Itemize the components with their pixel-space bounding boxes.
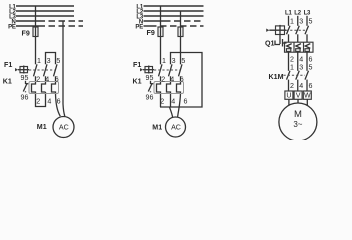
svg-text:1: 1 [290,17,294,25]
svg-text:6: 6 [184,97,188,105]
svg-text:AC: AC [59,123,69,131]
svg-text:2: 2 [290,56,294,64]
svg-text:95: 95 [146,74,154,82]
svg-text:AC: AC [171,123,181,131]
svg-text:5: 5 [309,17,313,25]
svg-text:U: U [286,92,291,100]
svg-text:6: 6 [309,56,313,64]
svg-text:3: 3 [172,57,176,65]
svg-text:1: 1 [290,64,294,72]
svg-text:2: 2 [36,97,40,105]
svg-text:M1: M1 [37,123,47,131]
svg-text:96: 96 [21,94,29,102]
svg-text:1: 1 [37,57,41,65]
svg-text:F1: F1 [4,61,12,69]
svg-text:Q1: Q1 [265,39,275,47]
svg-text:5: 5 [181,57,185,65]
svg-text:K1: K1 [3,77,12,85]
svg-text:95: 95 [21,74,29,82]
svg-text:3: 3 [47,57,51,65]
svg-text:F9: F9 [22,30,30,38]
svg-text:PE: PE [8,24,16,30]
svg-text:1: 1 [162,57,166,65]
svg-text:M: M [294,109,302,120]
svg-text:K1M: K1M [269,73,284,81]
svg-text:F1: F1 [133,61,141,69]
svg-text:4: 4 [45,76,49,84]
svg-text:3~: 3~ [293,120,302,129]
svg-text:4: 4 [171,97,175,105]
svg-text:4: 4 [47,97,51,105]
svg-text:3: 3 [299,64,303,72]
svg-text:2: 2 [161,76,165,84]
svg-text:3: 3 [299,17,303,25]
svg-text:6: 6 [309,82,313,90]
svg-text:L2: L2 [294,11,301,17]
svg-text:4: 4 [299,56,303,64]
svg-text:4: 4 [299,82,303,90]
svg-text:5: 5 [56,57,60,65]
svg-text:6: 6 [57,97,61,105]
svg-text:6: 6 [180,76,184,84]
svg-text:K1: K1 [133,77,142,85]
svg-text:PE: PE [135,24,143,30]
svg-text:2: 2 [36,76,40,84]
svg-text:L3: L3 [304,11,311,17]
svg-text:2: 2 [290,82,294,90]
svg-text:96: 96 [146,94,154,102]
svg-text:L1: L1 [285,11,292,17]
svg-text:F9: F9 [147,29,155,37]
svg-text:V: V [296,92,301,100]
svg-text:2: 2 [160,97,164,105]
svg-text:W: W [304,92,311,100]
svg-text:4: 4 [170,76,174,84]
svg-text:5: 5 [309,64,313,72]
svg-text:M1: M1 [152,124,162,132]
svg-text:6: 6 [55,76,59,84]
